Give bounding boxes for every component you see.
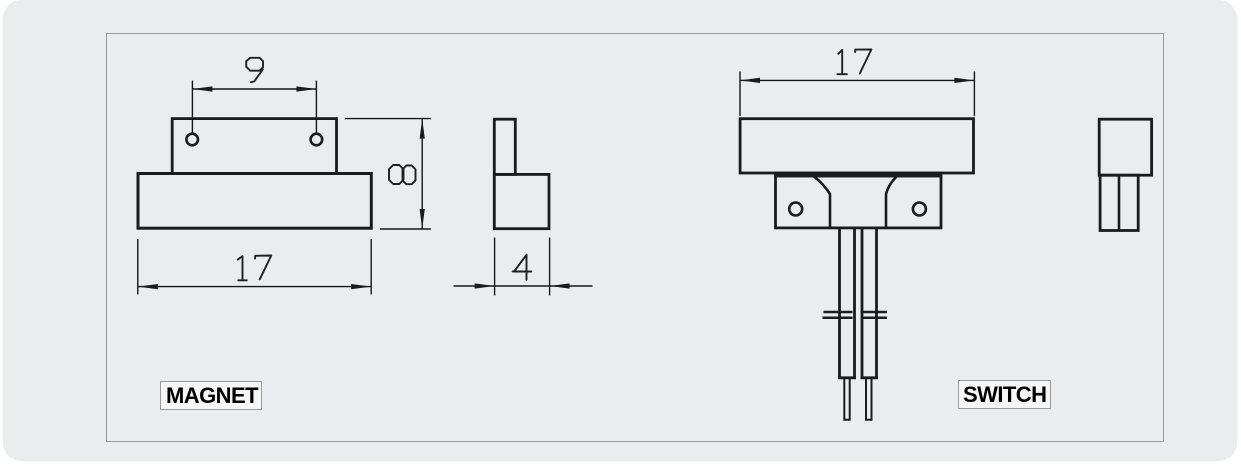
switch front view: top block [740,119,973,173]
wire 2 bare conductor [866,378,872,420]
dim text 17 magnet [238,256,272,281]
dim 9 line [192,88,316,90]
dim 8 line [421,119,423,229]
wire 1 bare conductor [844,378,849,420]
dim 9 arrows [192,86,212,91]
dim 4 extension lines [495,238,550,296]
dim 17 switch extension lines [740,72,974,117]
MAGNET label [160,381,262,410]
magnet front view: top block [172,119,336,174]
switch side view: divider line [1118,175,1121,230]
switch hole left [789,203,802,216]
switch lower block: right fillet channel edge [886,177,896,228]
dim text 9 [246,58,263,82]
dim 4 line [454,285,593,287]
SWITCH label [958,380,1051,409]
magnet hole right [311,134,323,146]
dim 17 magnet extension lines [138,239,371,294]
switch lower block: left fillet channel edge [814,176,830,228]
magnet side view: narrow top part [494,119,515,174]
dim 17 magnet line [138,286,371,288]
magnet front view: bottom block [138,174,371,229]
switch side view: top square [1099,119,1151,175]
dim text 4 [513,255,532,280]
wire 2 insulation outline [861,228,879,378]
dim 17 switch arrows [740,78,760,83]
wire 2 break marks [861,312,888,318]
switch front view: lower block [776,176,942,228]
dim 8 arrows [420,119,425,139]
dim 9 extension lines [192,81,316,133]
dim 17 magnet arrows [138,284,158,289]
switch thick joint band between top and lower block [774,172,942,177]
dim 4 arrows [475,283,495,288]
magnet hole left [186,134,198,146]
dim text 17 switch [837,49,871,74]
wire 1 break marks [823,312,853,318]
switch hole right [913,203,926,216]
wire 1 insulation outline [838,228,856,378]
switch side view: lower part [1100,175,1138,230]
magnet side view: wide bottom part [494,174,549,228]
dim 17 switch line [740,79,974,81]
inner drawing frame [106,33,1165,442]
dim 8 extension lines [345,119,431,229]
dim text 8 (rotated) [389,165,416,184]
